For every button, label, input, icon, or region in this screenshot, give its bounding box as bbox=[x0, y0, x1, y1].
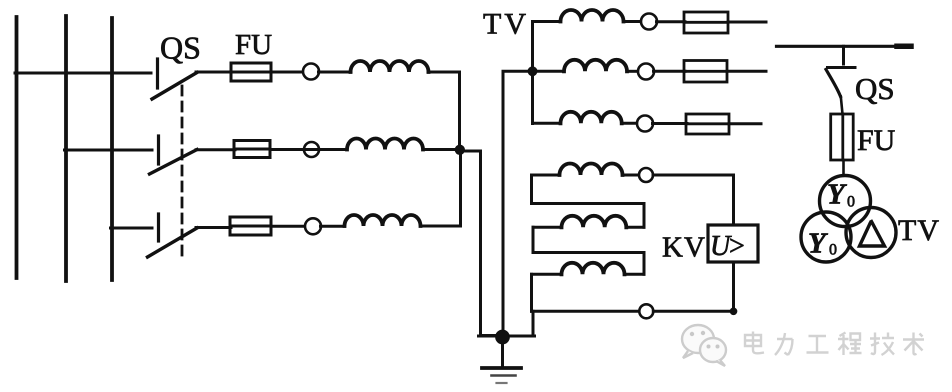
primary winding A bbox=[351, 61, 429, 72]
wire node c to fuse c bbox=[653, 122, 688, 125]
wire winding a to node a bbox=[624, 20, 643, 23]
wire delta corner to ground bus bbox=[532, 311, 535, 336]
bus bar 2 bbox=[64, 16, 68, 281]
bus bar 3 bbox=[110, 18, 114, 280]
wire secondary b to winding bbox=[534, 70, 564, 73]
primary winding B bbox=[347, 139, 423, 150]
label Y0 top winding bbox=[827, 179, 855, 211]
primary star point junction bbox=[455, 145, 465, 155]
auxiliary winding da (open delta top) bbox=[532, 164, 640, 176]
svg-text:FU: FU bbox=[235, 29, 272, 61]
wire node b to fuse b bbox=[654, 70, 686, 73]
wire tap phase B bbox=[65, 149, 153, 152]
svg-text:Y: Y bbox=[808, 228, 828, 260]
wire bus drop bbox=[842, 46, 845, 64]
svg-text:QS: QS bbox=[855, 71, 895, 106]
wire fuse c out bbox=[729, 122, 761, 125]
svg-text:QS: QS bbox=[160, 30, 201, 66]
wire winding B to primary star bbox=[423, 148, 458, 151]
wire fuse C to node C bbox=[271, 225, 306, 228]
wire winding A to primary star bbox=[428, 72, 460, 146]
wire fuse B to node B bbox=[270, 148, 347, 151]
svg-text:TV: TV bbox=[898, 214, 940, 247]
wire blade A to fuse A bbox=[196, 71, 232, 74]
auxiliary winding dc bbox=[532, 263, 645, 275]
secondary neutral wire bbox=[503, 71, 530, 334]
secondary winding a bbox=[561, 10, 624, 22]
node c (terminal circle) bbox=[637, 116, 653, 132]
secondary star junction bbox=[528, 67, 537, 76]
wire primary star to ground bus bbox=[461, 151, 500, 336]
disconnector QS contact C bbox=[157, 214, 160, 241]
primary winding C bbox=[345, 215, 421, 226]
wire tap phase A bbox=[15, 72, 151, 75]
wire blade C to fuse C bbox=[196, 226, 231, 229]
disconnector QS blade B bbox=[150, 150, 198, 175]
svg-text:Y: Y bbox=[827, 179, 847, 211]
svg-text:0: 0 bbox=[847, 194, 855, 211]
right bus end blob bbox=[897, 44, 911, 50]
relay U> box bbox=[708, 225, 758, 262]
wire winding c to node c bbox=[622, 122, 638, 125]
wire winding C to primary star bbox=[421, 152, 461, 226]
wire secondary a to winding bbox=[533, 22, 561, 23]
wire node a to fuse a bbox=[657, 20, 686, 23]
fuse FU phase B bbox=[234, 141, 270, 158]
delta bottom wire bbox=[532, 310, 640, 313]
label Y0 bottom-left winding bbox=[808, 228, 837, 260]
watermark text shu bbox=[903, 333, 924, 355]
node a (terminal circle) bbox=[641, 14, 657, 30]
node dd (terminal circle) bbox=[639, 304, 653, 318]
fuse FU2 bbox=[831, 114, 854, 160]
wire fuse a out bbox=[728, 21, 766, 24]
wire dc down to delta bottom bbox=[530, 274, 533, 311]
wire fuse b out bbox=[727, 70, 766, 73]
wire fuse FU2 to transformer bbox=[842, 160, 845, 176]
fuse FU phase C bbox=[230, 217, 271, 235]
ground junction bbox=[496, 330, 510, 344]
bus bar 1 bbox=[15, 17, 19, 278]
disconnector QS2 blade bbox=[826, 70, 841, 97]
fuse b secondary bbox=[684, 61, 727, 83]
node A (terminal circle) bbox=[303, 64, 319, 80]
disconnector QS blade C bbox=[148, 228, 198, 257]
ground bus wire bbox=[479, 335, 535, 338]
junction dot relay bottom corner bbox=[730, 308, 737, 315]
watermark text li (power) bbox=[775, 333, 793, 355]
svg-text:>: > bbox=[729, 231, 745, 262]
transformer winding circle bottom-left bbox=[801, 212, 851, 262]
svg-text:KV: KV bbox=[662, 232, 706, 264]
watermark text dian (electric) bbox=[745, 332, 924, 356]
disconnector QS contact A bbox=[156, 59, 159, 88]
wire node A to winding A bbox=[319, 71, 352, 74]
node da (terminal circle) bbox=[639, 168, 653, 182]
wire node C to winding C bbox=[321, 225, 345, 228]
watermark text cheng bbox=[838, 333, 862, 356]
wire node da to relay bbox=[653, 175, 734, 224]
fuse a secondary bbox=[684, 12, 728, 33]
node C (terminal circle) bbox=[305, 218, 321, 234]
transformer winding circle top bbox=[820, 176, 871, 227]
svg-text:TV: TV bbox=[483, 8, 529, 41]
wire secondary c to winding bbox=[533, 122, 561, 123]
disconnector QS blade A bbox=[152, 73, 197, 100]
fuse FU phase A bbox=[231, 63, 271, 81]
right section bus bbox=[777, 45, 912, 48]
wire blade to fuse FU2 bbox=[841, 97, 843, 115]
svg-text:FU: FU bbox=[857, 124, 896, 157]
node B (terminal circle) bbox=[304, 142, 319, 157]
wire fuse A to node A bbox=[271, 71, 303, 74]
svg-text:0: 0 bbox=[829, 242, 837, 259]
secondary winding b bbox=[564, 60, 627, 72]
series link da-db bbox=[532, 175, 645, 227]
watermark text gong (engineering) bbox=[807, 336, 829, 353]
watermark text ji (technology) bbox=[870, 333, 894, 356]
fuse c secondary bbox=[686, 114, 729, 134]
node b (terminal circle) bbox=[638, 64, 654, 80]
wire blade B to fuse B bbox=[196, 148, 235, 151]
auxiliary winding db bbox=[533, 216, 644, 227]
secondary winding c bbox=[561, 112, 622, 124]
label delta bottom-right winding bbox=[860, 222, 885, 247]
wire winding b to node b bbox=[627, 70, 639, 73]
ground symbol bbox=[482, 336, 521, 383]
disconnector QS2 contact bar bbox=[828, 66, 856, 69]
wire tap phase C bbox=[111, 227, 153, 230]
secondary star bus bbox=[531, 22, 534, 124]
transformer winding circle bottom-right bbox=[846, 208, 896, 258]
QS gang linkage (dashed) bbox=[181, 86, 184, 256]
wire node dd to relay bottom bbox=[653, 263, 733, 311]
disconnector QS contact B bbox=[157, 136, 160, 164]
series link db-dc bbox=[533, 227, 644, 274]
watermark logo bbox=[682, 325, 726, 366]
